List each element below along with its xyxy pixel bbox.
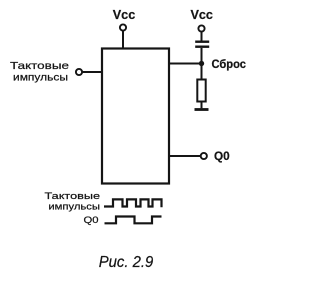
- svg-text:Сброс: Сброс: [212, 57, 247, 71]
- svg-text:Q0: Q0: [214, 149, 230, 163]
- Vcc label (top left): [113, 7, 136, 22]
- wire U1 right to Q0 terminal: [169, 155, 201, 157]
- timing Q0 label: [84, 215, 99, 226]
- svg-text:Vcc: Vcc: [113, 7, 136, 22]
- timing Q0 waveform: [105, 217, 162, 224]
- svg-text:Тактовые: Тактовые: [10, 60, 69, 72]
- wire capacitor C1 to resistor R1: [201, 48, 203, 80]
- counter IC U1 body: [102, 49, 169, 184]
- svg-text:Vcc: Vcc: [190, 7, 213, 22]
- Сброс (reset) label: [212, 57, 247, 71]
- wire clock terminal to U1 left: [82, 71, 102, 73]
- timing clock label: [45, 191, 101, 213]
- ground: [195, 108, 209, 111]
- svg-text:импульсы: импульсы: [13, 71, 68, 83]
- wire Vcc terminal to U1 top: [122, 31, 124, 49]
- Q0 output terminal: [201, 153, 207, 159]
- Vcc terminal (top right): [198, 25, 204, 31]
- clock input terminal: [76, 69, 82, 75]
- timing clock waveform: [104, 199, 162, 207]
- wire U1 right to reset node: [169, 63, 202, 65]
- Vcc terminal (top left): [120, 24, 126, 30]
- caption Рис. 2.9: [99, 254, 154, 271]
- Vcc label (top right): [190, 7, 213, 22]
- resistor R1: [197, 80, 205, 102]
- capacitor C1: [195, 42, 209, 47]
- node reset junction: [199, 61, 204, 66]
- wire Vcc terminal to capacitor C1: [201, 32, 203, 41]
- clock input label: [10, 60, 69, 83]
- Q0 label: [214, 149, 230, 163]
- svg-text:Рис. 2.9: Рис. 2.9: [99, 254, 154, 271]
- wire resistor R1 to ground: [201, 102, 203, 109]
- svg-text:Q0: Q0: [84, 215, 99, 226]
- svg-text:Тактовые: Тактовые: [45, 191, 101, 202]
- svg-text:импульсы: импульсы: [48, 201, 100, 212]
